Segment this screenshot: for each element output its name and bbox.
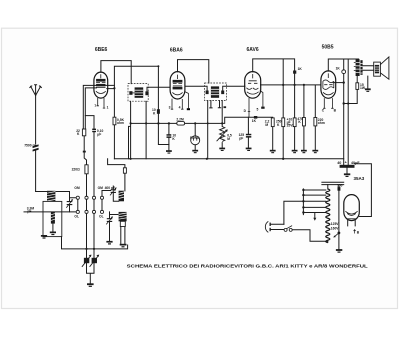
ground heater tap — [336, 249, 342, 251]
wire 6AV6 plate line B y=84.9 — [261, 85, 321, 118]
resistor osc feed — [123, 168, 126, 173]
capacitor 125pF — [246, 134, 251, 138]
ground osc coil — [120, 244, 127, 246]
junction blob on cathode line — [83, 151, 86, 153]
svg-text:OM: OM — [98, 186, 104, 190]
ground AVC cap — [166, 150, 172, 152]
ground 2,2M — [270, 150, 276, 152]
ground tuning gang — [87, 283, 94, 285]
wire osc feed from bus via resistor — [108, 159, 125, 191]
ground FONO — [192, 150, 198, 152]
wire mains feed upper — [284, 201, 304, 224]
svg-text:M: M — [227, 137, 230, 141]
svg-text:160V: 160V — [331, 227, 340, 231]
resistor 2,2M AVC series — [177, 122, 185, 126]
tuning gang section 1 — [82, 255, 92, 267]
transformer tap dots — [302, 189, 304, 214]
svg-text:OM: OM — [74, 186, 80, 190]
mains plug — [265, 221, 270, 232]
tube V2 pins — [171, 92, 189, 110]
wire bus2 main earth line y=158.8 — [114, 158, 343, 160]
svg-text:1K: 1K — [298, 67, 303, 71]
capacitor C-coupling at 6AV6 pin — [261, 107, 264, 109]
svg-text:OL: OL — [74, 215, 79, 219]
resistor 22K — [82, 129, 85, 136]
wire antenna to coil — [36, 191, 70, 193]
wire node line OL y=211.9 — [24, 211, 76, 213]
wire switch column verticals — [78, 199, 102, 210]
svg-text:40: 40 — [337, 161, 341, 165]
wire 10K resistor branch — [158, 114, 169, 145]
tube V3 internal electrodes — [246, 74, 258, 94]
FONO jack — [191, 136, 200, 145]
resistor 15 ohm 1W — [356, 83, 359, 90]
wire transformer tap bar — [302, 189, 304, 215]
svg-text:6AV6: 6AV6 — [247, 47, 259, 53]
tube V4 50B5 envelope — [321, 71, 336, 98]
wire 150 ohm dropper line — [338, 185, 340, 250]
svg-text:150: 150 — [337, 184, 343, 188]
svg-text:pF: pF — [27, 210, 31, 214]
oscillator coil L2 bottom form — [120, 221, 125, 226]
svg-text:6BA6: 6BA6 — [170, 47, 183, 53]
wire IFT2 pins down — [208, 101, 223, 159]
wire osc trimmer1 stem — [113, 186, 118, 201]
wire plug prong leads — [271, 224, 284, 229]
wire 470K chain down — [303, 126, 305, 150]
wire screen feed line y=66.3 — [114, 66, 158, 117]
wire speaker return to ground — [367, 76, 369, 88]
antenna coil L1 secondary form — [43, 201, 62, 236]
tube V4 internal electrodes — [323, 73, 334, 94]
ground speaker — [365, 88, 371, 90]
resistor 10K screen (dark) — [157, 109, 160, 114]
antenna coil L1 secondary winding — [51, 212, 55, 224]
svg-text:+: + — [345, 161, 347, 165]
voltage selector arrow — [313, 218, 316, 221]
wire filter cap stem — [346, 168, 348, 174]
capacitor blob at IFT2 right pin — [224, 106, 227, 108]
tube V3 pins — [248, 91, 263, 118]
svg-text:5: 5 — [257, 108, 259, 112]
svg-text:OL: OL — [99, 215, 104, 219]
wire osc coil grounds stems — [110, 212, 125, 244]
svg-text:2,2M: 2,2M — [176, 117, 184, 121]
wire output transformer primary bottom — [344, 76, 358, 104]
ground padder osc — [106, 241, 112, 243]
ground under ant coil box — [41, 235, 47, 237]
wire cap 10K branch — [168, 123, 170, 150]
oscillator coil L2 core — [119, 212, 127, 221]
wire 6BA6 top loop — [178, 60, 209, 83]
wire selector stub — [314, 213, 316, 218]
IF transformer T2 dashed shield — [205, 83, 227, 101]
band switch contacts row OM — [76, 196, 103, 213]
wire heater B+ riser — [354, 164, 371, 217]
antenna coil L1 primary — [47, 191, 55, 201]
capacitor 7500pF in antenna lead — [33, 144, 39, 151]
wire rect tube pins down — [348, 220, 356, 226]
svg-text:ohm: ohm — [318, 121, 325, 125]
tube V5 35A3 envelope — [344, 195, 360, 221]
IFT2 core windings — [206, 86, 225, 97]
loudspeaker — [374, 57, 389, 79]
resistor 470K — [303, 118, 306, 126]
svg-text:1K: 1K — [336, 66, 341, 70]
resistor 0,5K ohm — [113, 117, 116, 125]
wire 2,2M chain down — [272, 127, 274, 150]
wire 220ohm chain down — [314, 126, 316, 150]
svg-text:125V: 125V — [331, 222, 340, 226]
tube V2 6BA6 envelope — [170, 72, 185, 99]
grid cap connector circle 50B5 — [342, 70, 346, 74]
ground 470K — [301, 150, 307, 152]
svg-text:25VL: 25VL — [287, 123, 295, 127]
svg-text:pF: pF — [239, 137, 243, 141]
wire taps to winding — [303, 190, 325, 213]
wire 10uF chain down — [294, 127, 296, 150]
capacitor 0,1uF cathode — [92, 129, 96, 133]
oscillator coil L2 top winding — [119, 191, 124, 202]
svg-text:4: 4 — [179, 106, 181, 110]
ground ant coil secondary — [50, 232, 56, 234]
svg-text:1: 1 — [107, 105, 109, 109]
capacitor electrolytic 10uF 25VL — [293, 118, 296, 127]
wire second filter cap lead — [347, 59, 349, 165]
wire 0,5K branch — [113, 125, 115, 159]
tube V5 internal electrodes — [345, 211, 357, 219]
tube V4 pins — [323, 98, 334, 108]
IF transformer T1 dashed shield — [128, 84, 148, 102]
wire 50B5 top loop — [328, 59, 358, 165]
wire 6AV6 top loop — [253, 59, 295, 118]
wire ant coil inner stem — [52, 224, 54, 232]
capacitor blob at 6BA6 right pin — [187, 108, 190, 110]
resistor 1K detector (dark) — [293, 71, 296, 74]
wire 250K chain down — [282, 127, 284, 159]
wire switch to winding bottom — [292, 185, 328, 243]
wire 50B5 plate stub — [333, 82, 344, 84]
padder trimmer capacitor osc — [106, 217, 113, 225]
wire bus3 bottom-left y=248.9 — [62, 237, 128, 249]
wire bus1 corner down to earth bus — [129, 123, 131, 158]
tube V1 6BE6 envelope — [94, 72, 108, 98]
wire gang bracket — [87, 263, 95, 283]
antenna mast wire — [35, 96, 37, 192]
trimmer capacitor 400pF osc — [110, 188, 116, 196]
antenna prongs — [30, 85, 42, 96]
svg-text:3: 3 — [169, 106, 171, 110]
wire 6BE6 grid lines left — [83, 85, 114, 129]
resistor 220 ohm cathode — [85, 165, 88, 174]
resistor 150 heater dropper (dark) — [338, 187, 341, 191]
wire FONO branch — [194, 123, 196, 149]
tuning gang section 2 — [90, 255, 100, 267]
resistor 2,2M grid — [271, 118, 274, 127]
svg-text:220Ω: 220Ω — [72, 167, 81, 171]
svg-text:400 pF: 400 pF — [105, 186, 115, 190]
svg-text:50B5: 50B5 — [322, 45, 334, 51]
wire cap 125pF stem — [247, 117, 249, 147]
svg-text:µF: µF — [97, 133, 101, 137]
trimmer capacitor on antenna coil — [66, 199, 73, 207]
ground volume pot — [219, 148, 225, 150]
svg-text:7: 7 — [94, 104, 96, 108]
resistor 1K diode load (dark inline) — [254, 116, 257, 119]
ground 10uF — [292, 150, 298, 152]
IFT1 core windings — [129, 87, 148, 97]
wire transformer to speaker — [363, 66, 374, 70]
ground 125pF — [246, 148, 252, 150]
output transformer T3 — [354, 59, 363, 76]
svg-text:FONO: FONO — [190, 136, 200, 140]
ground symbols — [41, 88, 371, 287]
ground filter caps — [344, 173, 350, 175]
tube V1 internal electrodes — [96, 74, 106, 93]
filter capacitors 40+40uF — [340, 165, 355, 168]
svg-text:SCHEMA ELETTRICO DEI RADIORICE: SCHEMA ELETTRICO DEI RADIORICEVITORI G.B… — [127, 264, 368, 269]
pin arrow B — [354, 230, 356, 234]
svg-text:M: M — [265, 123, 268, 127]
svg-text:ohm: ohm — [117, 121, 124, 125]
power transformer winding — [326, 189, 330, 243]
wire cathode bypass line y=115.6 — [85, 116, 94, 197]
ground 220 ohm — [312, 150, 318, 152]
capacitor AVC (10K label) — [167, 134, 172, 138]
wire rectifier top double line — [322, 182, 344, 184]
wire 6BE6 top plate loop — [101, 61, 131, 84]
resistor 220 ohm cathode 50B5 — [314, 118, 317, 126]
wire 6BE6 to IFT1 — [107, 86, 245, 91]
tube V1 pins — [97, 98, 106, 108]
tube V2 internal electrodes — [172, 75, 182, 95]
volume potentiometer 0,5M rheostat — [217, 127, 228, 142]
wire band switch OM4 stub to osc — [102, 191, 111, 197]
svg-text:1K: 1K — [252, 119, 257, 123]
band switch contacts row OL — [76, 210, 79, 213]
wire volume pot branch — [221, 143, 223, 148]
wire gang leads — [87, 213, 95, 257]
wire 22K chain down to band switch — [84, 136, 86, 196]
tap junction dot with arrow — [334, 232, 341, 238]
svg-text:35A3: 35A3 — [354, 176, 365, 181]
wire bus1 AVC line y=123.4 — [131, 117, 273, 123]
resistor 250K — [282, 118, 285, 127]
wire IFT1 pins down — [131, 101, 147, 158]
svg-text:7500 pF: 7500 pF — [24, 144, 36, 148]
tube V3 6AV6 envelope — [245, 72, 261, 99]
mains switch — [284, 226, 292, 232]
svg-text:40µF: 40µF — [351, 161, 360, 165]
svg-text:6BE6: 6BE6 — [95, 47, 108, 53]
wire padder trimmer ant — [70, 192, 76, 212]
